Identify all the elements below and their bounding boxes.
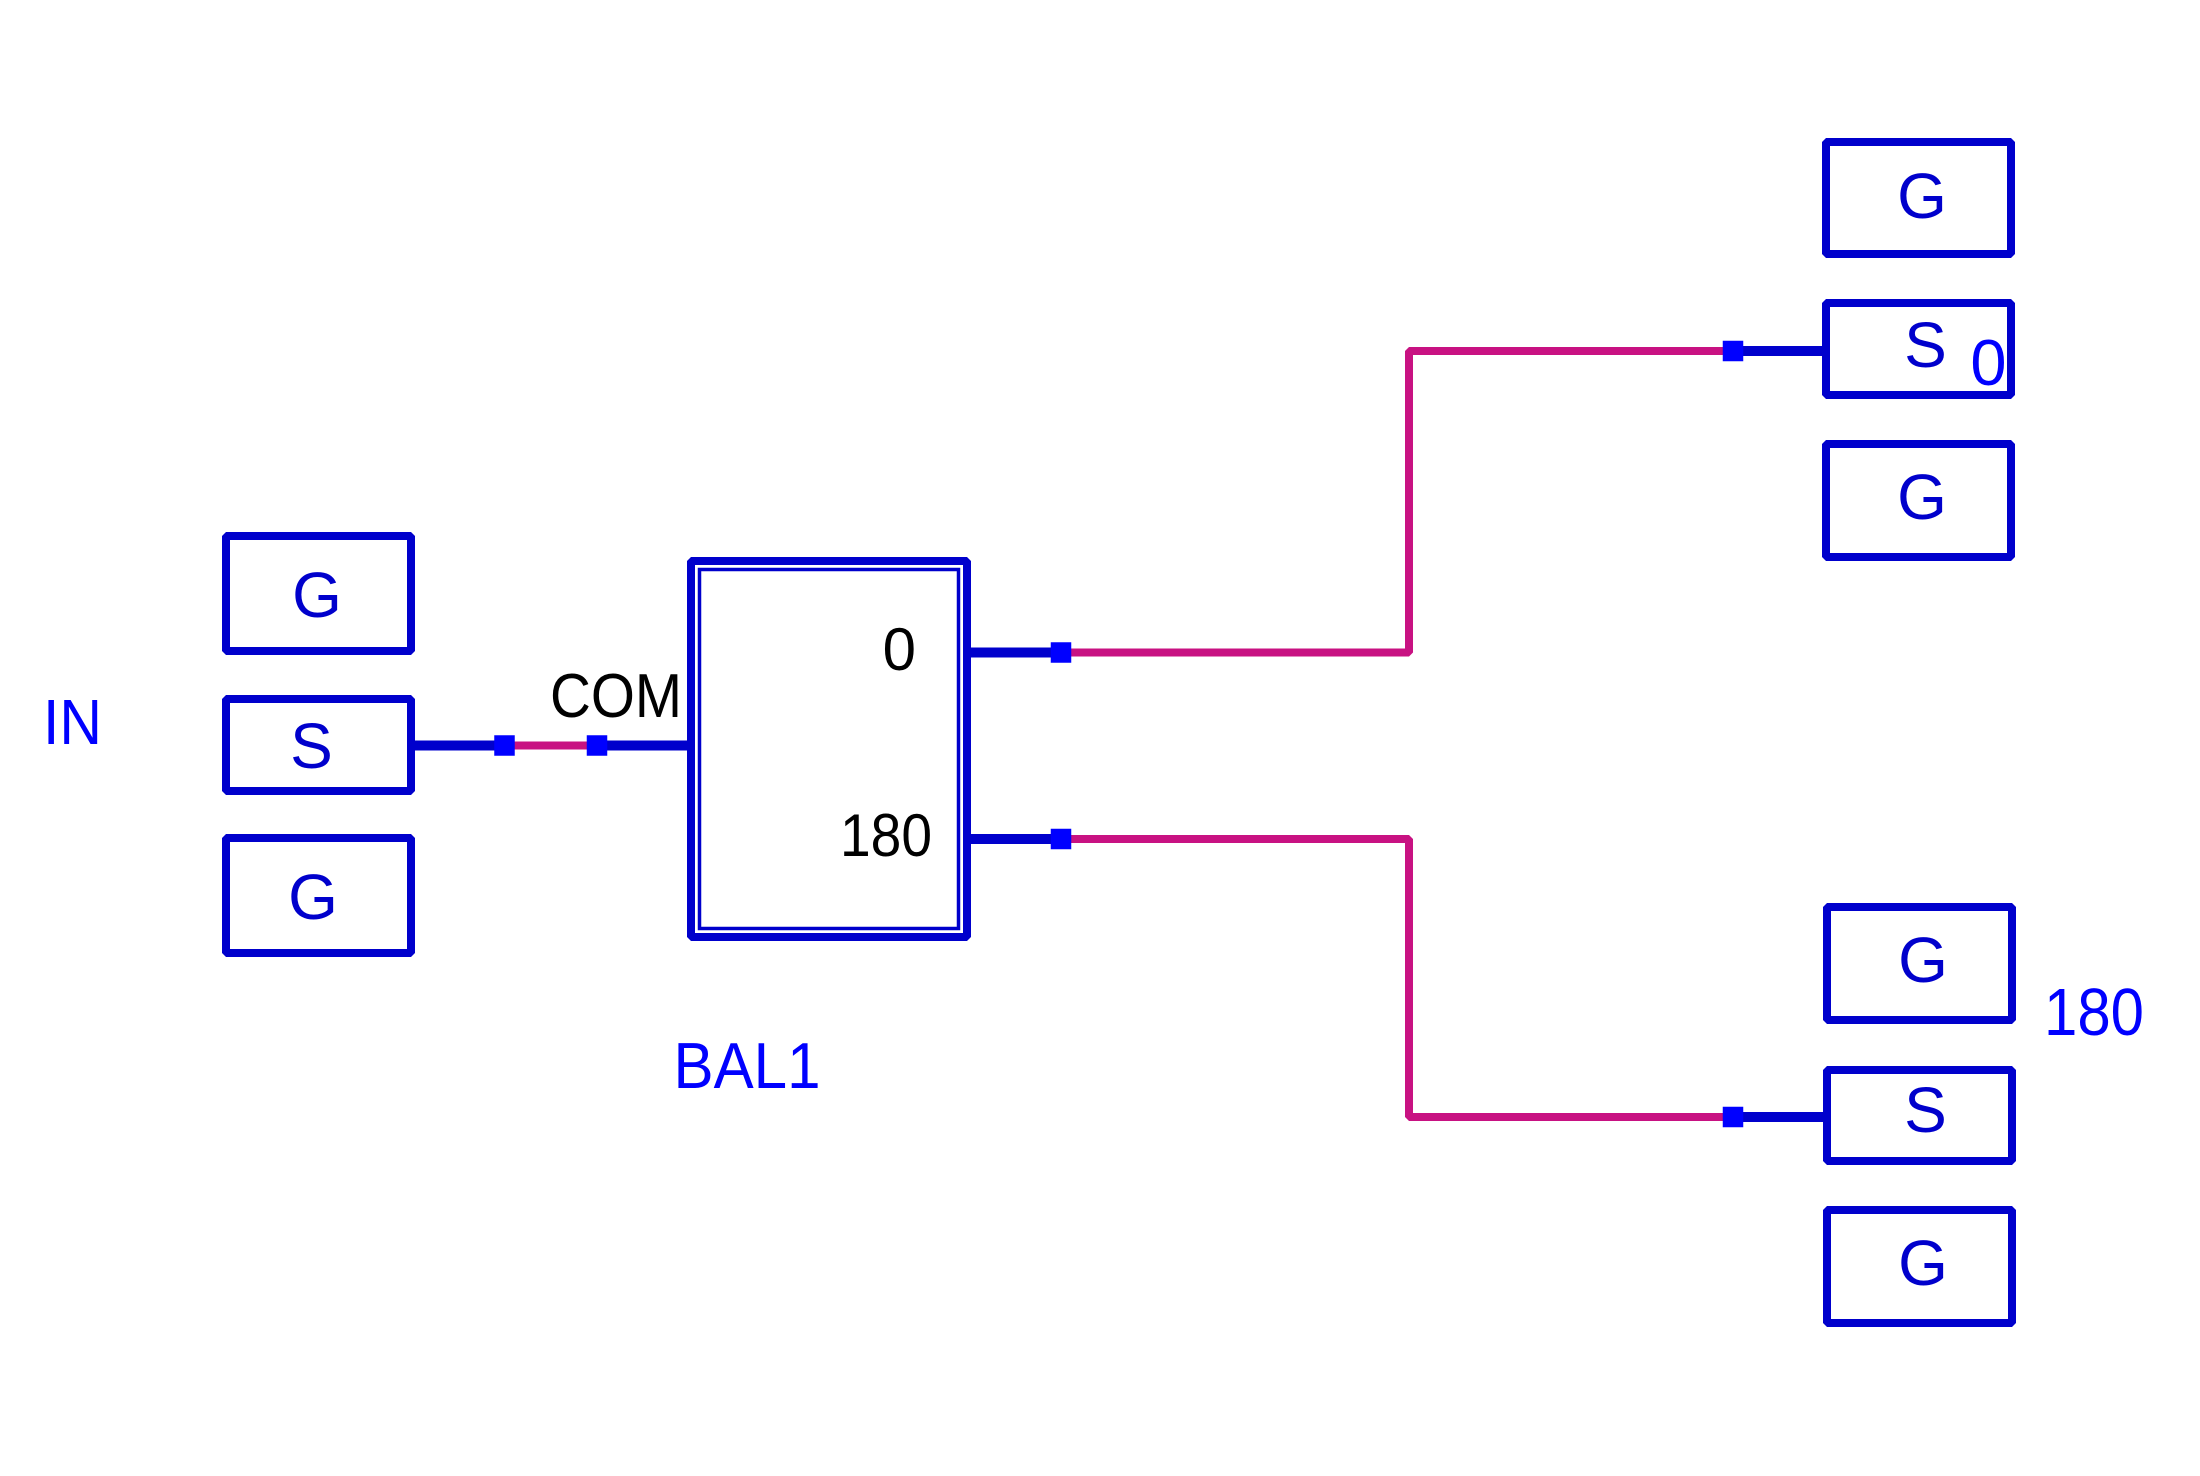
- svg-text:180: 180: [2044, 975, 2144, 1050]
- svg-text:G: G: [1897, 160, 1947, 232]
- svg-text:S: S: [290, 710, 333, 782]
- svg-text:G: G: [1898, 1227, 1948, 1299]
- svg-text:BAL1: BAL1: [674, 1029, 821, 1102]
- svg-text:G: G: [1897, 461, 1947, 533]
- svg-text:180: 180: [840, 802, 932, 869]
- svg-text:0: 0: [1970, 326, 2006, 399]
- svg-text:COM: COM: [550, 662, 682, 731]
- svg-text:G: G: [292, 559, 342, 631]
- svg-text:IN: IN: [43, 686, 102, 758]
- svg-text:S: S: [1904, 1074, 1947, 1146]
- svg-text:S: S: [1904, 309, 1947, 381]
- svg-text:0: 0: [883, 616, 916, 683]
- svg-text:G: G: [288, 861, 338, 933]
- svg-text:G: G: [1898, 924, 1948, 996]
